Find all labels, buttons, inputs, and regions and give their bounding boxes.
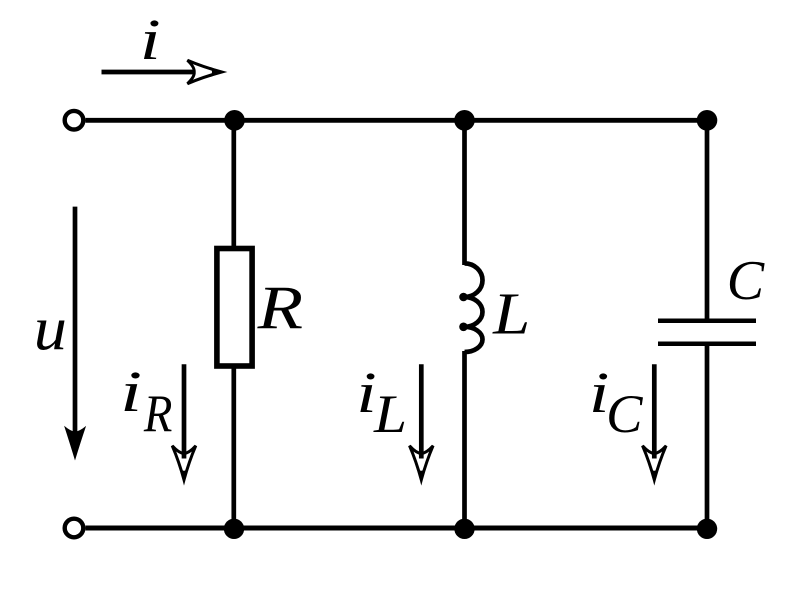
svg-text:C: C <box>727 250 765 312</box>
node bottom R junction <box>224 519 244 539</box>
current arrow iC <box>643 364 667 480</box>
resistor R <box>217 249 252 367</box>
node top L junction <box>454 110 475 131</box>
wire C branch lower <box>705 344 710 528</box>
svg-text:R: R <box>257 273 304 341</box>
label R <box>257 273 304 341</box>
wire top horizontal <box>86 118 708 123</box>
wire C branch upper <box>705 120 710 321</box>
svg-text:u: u <box>34 294 67 363</box>
svg-text:C: C <box>606 383 643 444</box>
current arrow i <box>102 60 223 83</box>
node top R junction <box>224 110 245 131</box>
top-left terminal <box>65 111 84 130</box>
svg-text:R: R <box>143 384 172 442</box>
label u <box>34 294 67 363</box>
node top C corner <box>697 110 718 131</box>
svg-text:L: L <box>492 281 530 347</box>
label iC <box>589 361 643 444</box>
wire bottom horizontal <box>86 526 708 531</box>
wire R branch lower <box>231 364 236 528</box>
voltage arrow u <box>64 207 86 461</box>
capacitor C <box>658 321 756 344</box>
wire L branch lower <box>462 351 467 528</box>
wire L branch upper <box>462 120 467 265</box>
label L <box>492 281 530 347</box>
label iL <box>356 361 407 444</box>
current arrow iL <box>410 364 434 480</box>
label iR <box>120 359 172 443</box>
svg-text:i: i <box>140 7 161 72</box>
inductor L <box>459 263 482 352</box>
current arrow iR <box>172 364 196 480</box>
svg-text:i: i <box>120 359 142 424</box>
label i <box>140 7 161 72</box>
node bottom C junction <box>697 519 717 539</box>
node bottom L junction <box>454 519 474 539</box>
bottom-left terminal <box>65 519 84 538</box>
wire R branch upper <box>231 120 236 250</box>
svg-text:L: L <box>373 385 407 445</box>
